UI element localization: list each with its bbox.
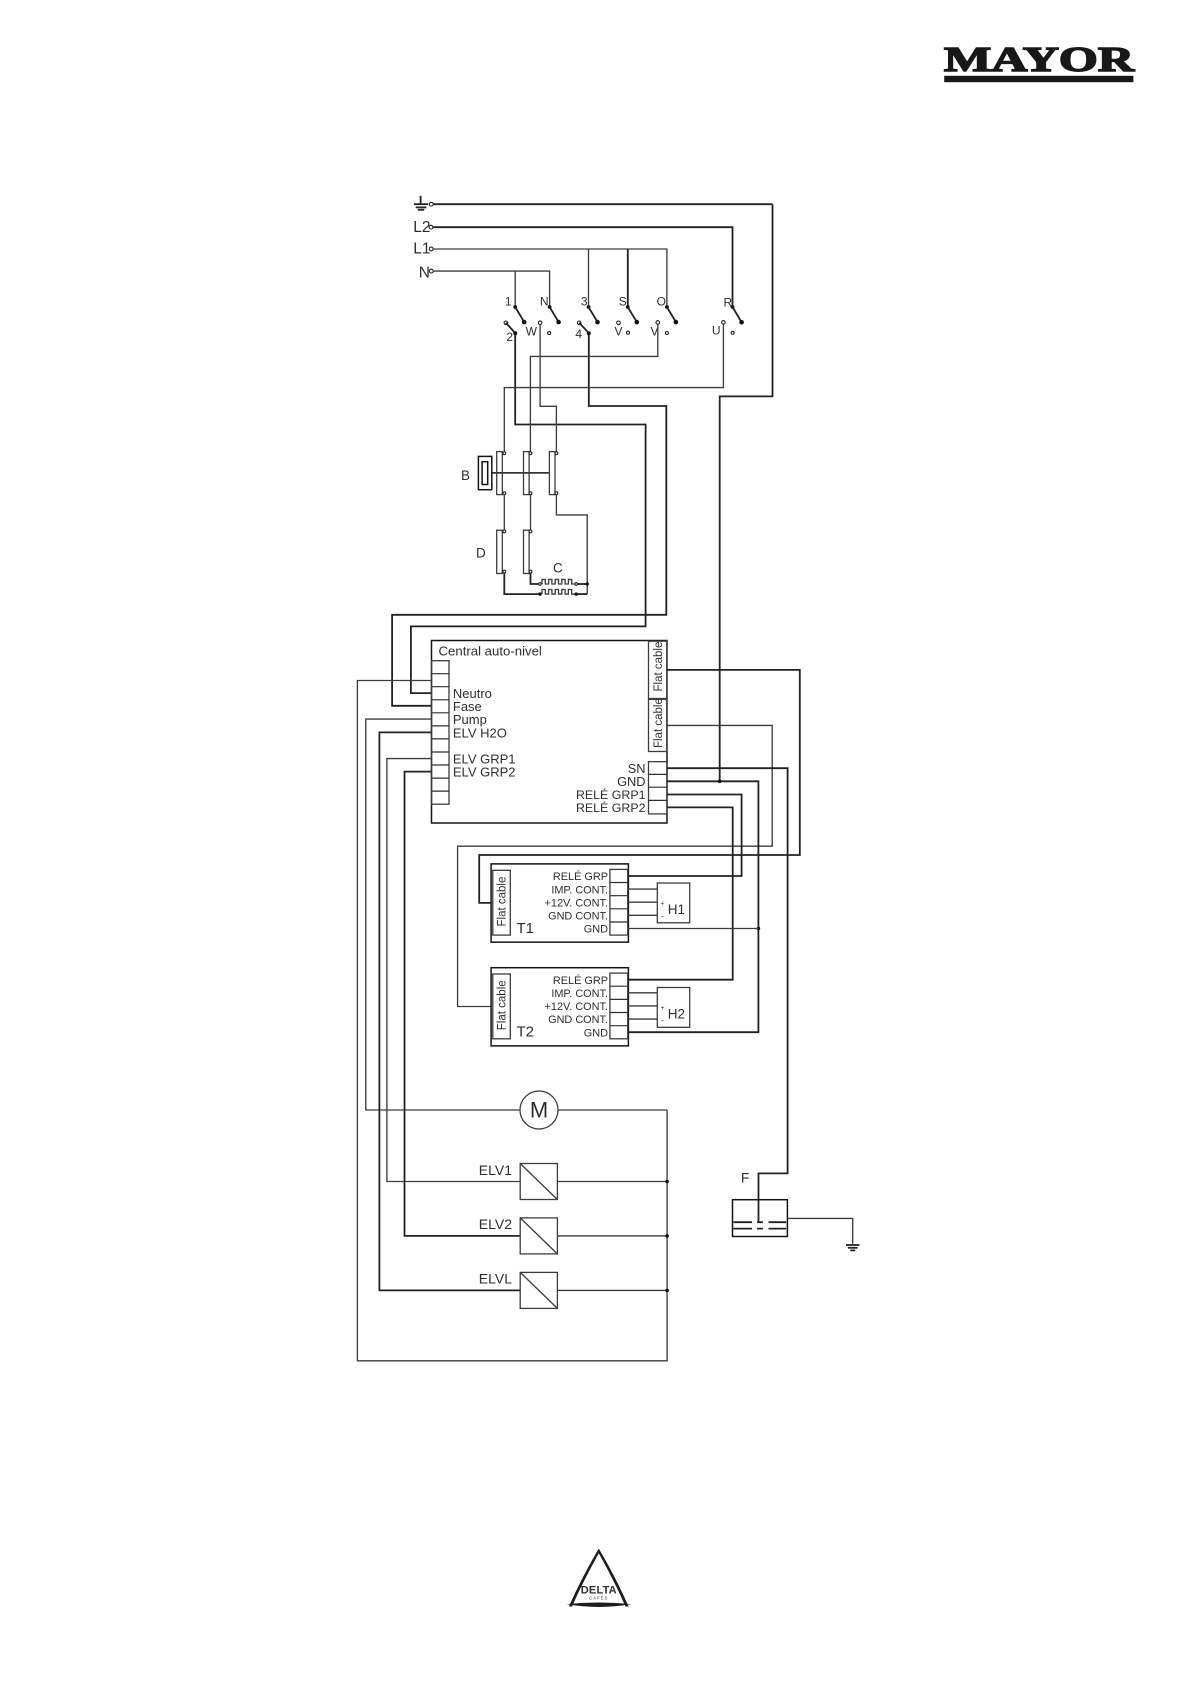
wire N rail to switch N (433, 271, 549, 305)
heater element C lower (542, 590, 575, 595)
contact C2 (524, 452, 532, 495)
wire PE down-route to GND junction (720, 204, 773, 781)
svg-text:H1: H1 (668, 902, 685, 917)
wire ELV2 to right bus (557, 1235, 667, 1237)
svg-text:GND: GND (584, 1027, 608, 1039)
node L1 terminal (429, 247, 433, 251)
wire GND bus to T2 (628, 781, 758, 1032)
svg-text:O: O (657, 294, 666, 308)
heater head H1 (657, 883, 689, 923)
svg-text:GND: GND (617, 774, 645, 789)
svg-text:-: - (661, 911, 664, 920)
svg-text:Flat cable: Flat cable (653, 642, 665, 692)
svg-text:T2: T2 (517, 1024, 535, 1041)
svg-text:ELV H2O: ELV H2O (453, 726, 507, 741)
switch R-U (pole 6) (712, 295, 744, 337)
terminal lower-right heater (575, 592, 578, 595)
wire L1 rail (433, 249, 667, 306)
svg-text:Flat cable: Flat cable (497, 980, 509, 1030)
terminal strip left (432, 661, 450, 805)
wire T2 GNDCONT to H2 (628, 1018, 658, 1020)
wire C3 to heater junction (556, 495, 587, 594)
wire Pump to motor M (366, 719, 520, 1110)
solenoid valve ELV2 (479, 1216, 558, 1254)
wire L1 branch to switch 3 (588, 249, 590, 306)
wire switch4 output to Fase (392, 335, 666, 706)
wire L2 rail to switch R (433, 227, 733, 305)
wire T2 +12V to H2 (628, 1005, 658, 1007)
connector Flat cable T2 (493, 974, 511, 1039)
junction ELVL bus (665, 1289, 669, 1293)
svg-text:B: B (461, 468, 470, 483)
svg-text:RELÉ GRP1: RELÉ GRP1 (576, 787, 646, 802)
svg-text:D: D (476, 546, 486, 561)
controller box Central auto-nivel (432, 641, 668, 824)
solenoid valve ELVL (479, 1271, 558, 1309)
wire C2 to D2 (530, 495, 532, 531)
wire motor M to right bus (558, 1109, 667, 1111)
svg-text:+: + (661, 901, 665, 908)
ground symbol bottom-right (846, 1245, 860, 1250)
capacitor F box (733, 1200, 788, 1237)
node L2 terminal (429, 225, 433, 229)
svg-text:Central auto-nivel: Central auto-nivel (439, 644, 542, 659)
svg-text:+: + (661, 1005, 665, 1012)
connector Flat cable upper (649, 641, 667, 698)
svg-text:N: N (540, 294, 549, 308)
svg-text:GND: GND (584, 924, 608, 936)
svg-text:RELÉ GRP: RELÉ GRP (553, 974, 608, 987)
wire switch U output to contact C1 (504, 324, 723, 451)
wire switch V output to contact C2 (530, 324, 657, 451)
connector Flat cable lower (649, 698, 667, 751)
motor M (520, 1091, 558, 1129)
wire T1 GNDCONT to H1 (628, 914, 658, 916)
wire switch2 output to Neutro (411, 335, 646, 693)
svg-text:ELV2: ELV2 (479, 1216, 512, 1232)
contact C3 (549, 452, 557, 495)
wire lower heater to junction (578, 593, 588, 595)
wire Flat cable lower to T2 (458, 725, 773, 1006)
wire T1 GND to bus (628, 928, 759, 930)
node PE terminal (429, 202, 433, 206)
wire capacitor F to earth (787, 1218, 852, 1243)
wire T1 IMP to H1 (628, 888, 658, 890)
svg-text:+12V. CONT.: +12V. CONT. (545, 897, 608, 909)
junction lower-left heater (538, 592, 541, 595)
svg-text:H2: H2 (668, 1006, 685, 1021)
svg-text:Flat cable: Flat cable (497, 877, 509, 927)
heater element C upper (542, 579, 575, 584)
svg-text:+12V. CONT.: +12V. CONT. (545, 1001, 608, 1013)
junction ELV1 bus (665, 1180, 669, 1184)
contact D2 (524, 530, 532, 574)
switch 3-4 (pole 3) (575, 294, 599, 341)
terminal upper-left heater (539, 583, 542, 586)
svg-text:2: 2 (506, 330, 513, 344)
svg-text:T1: T1 (517, 920, 535, 937)
svg-text:S: S (619, 294, 627, 308)
ground symbol PE (top-left earth) (414, 196, 428, 210)
svg-text:ELVL: ELVL (479, 1271, 512, 1287)
junction GND-T1 (757, 927, 761, 931)
svg-text:RELÉ GRP: RELÉ GRP (553, 870, 608, 883)
svg-text:L1: L1 (413, 241, 430, 258)
svg-text:IMP. CONT.: IMP. CONT. (551, 884, 608, 896)
logo DELTA CAFES (567, 1549, 632, 1607)
wire upper heater to junction (578, 583, 588, 585)
svg-text:-: - (661, 1016, 664, 1025)
wire ELVL to right bus (557, 1289, 667, 1291)
terminal cells right SN GND RELE (649, 762, 668, 814)
wire SN to capacitor F (667, 768, 788, 1222)
svg-text:U: U (712, 323, 721, 337)
wire Flat cable upper to T1 (479, 670, 800, 903)
junction dot heater (586, 582, 589, 585)
svg-text:ELV1: ELV1 (479, 1162, 512, 1178)
switch S-V (pole 4) (614, 294, 639, 338)
svg-text:IMP. CONT.: IMP. CONT. (551, 988, 608, 1000)
svg-text:L2: L2 (413, 219, 430, 236)
svg-text:Flat cable: Flat cable (653, 698, 665, 748)
wire L1 branch to switch S (627, 249, 629, 306)
wire T1 +12V to H1 (628, 901, 658, 903)
linkage B to contacts (492, 472, 550, 474)
wire RELE GRP2 to T2 (628, 807, 732, 979)
relay box T2 (491, 968, 628, 1046)
wire N branch to switch 1 (514, 271, 516, 305)
logo MAYOR wordmark (944, 41, 1136, 82)
switch N-W (pole 2) (526, 294, 561, 338)
switch O-V (pole 5) (650, 294, 678, 338)
solenoid valve ELV1 (479, 1162, 558, 1200)
svg-text:M: M (530, 1098, 548, 1123)
wire ELV GRP1 to ELV1 (387, 759, 520, 1182)
terminal cells T2 (610, 973, 628, 1039)
wire switch W output to contact C3 (540, 325, 556, 452)
contact D1 (476, 530, 506, 574)
svg-text:N: N (419, 264, 430, 281)
svg-text:C: C (553, 561, 563, 576)
wire ELV H2O to ELVL (379, 732, 520, 1290)
terminal upper-right heater (575, 583, 578, 586)
switch 1-2 (pole 1) (504, 294, 526, 344)
svg-text:3: 3 (581, 294, 588, 308)
svg-text:MAYOR: MAYOR (944, 41, 1136, 79)
wire RELE GRP1 to T1 (628, 795, 741, 877)
svg-text:ELV GRP2: ELV GRP2 (453, 765, 516, 780)
svg-text:W: W (526, 324, 538, 338)
heater head H2 (657, 988, 689, 1028)
wire D1 to lower heater element (504, 573, 538, 594)
junction ELV2 bus (665, 1234, 669, 1238)
node N terminal (429, 269, 433, 273)
junction GND-PE (718, 780, 722, 784)
wire ELV GRP2 to ELV2 (405, 772, 521, 1236)
connector Flat cable T1 (493, 870, 511, 935)
wire return rail (cell2 to bottom rail and ELV bus) (357, 681, 667, 1361)
contactor coil B (461, 456, 492, 489)
terminal cells T1 (610, 869, 628, 935)
svg-text:CAFÉS: CAFÉS (589, 1595, 608, 1600)
svg-text:RELÉ GRP2: RELÉ GRP2 (576, 800, 646, 815)
svg-text:GND CONT.: GND CONT. (548, 911, 608, 923)
wire C1 to D1 (503, 495, 505, 531)
wire T2 IMP to H2 (628, 992, 658, 994)
svg-text:GND CONT.: GND CONT. (548, 1014, 608, 1026)
wire D2 to upper heater element (531, 573, 539, 584)
svg-text:F: F (741, 1170, 749, 1185)
relay box T1 (491, 864, 628, 942)
svg-text:1: 1 (505, 294, 512, 308)
contact C1 (497, 452, 506, 495)
wire PE rail (433, 203, 772, 205)
svg-text:4: 4 (575, 327, 582, 341)
wire ELV1 to right bus (557, 1181, 667, 1183)
svg-text:V: V (614, 324, 622, 338)
